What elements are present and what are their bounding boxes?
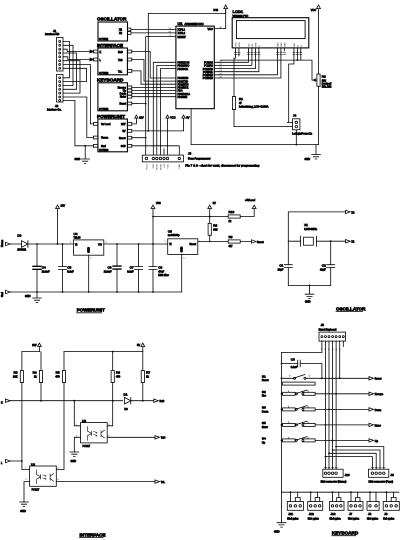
wire J1 pin2 ladder xyxy=(63,45,73,85)
ground symbol right of J3 xyxy=(305,145,321,161)
svg-text:TxL: TxL xyxy=(161,481,166,484)
wire LCD K pin to J4 pin1 xyxy=(288,51,294,122)
svg-text:12V: 12V xyxy=(121,123,126,126)
wire 12V pin to arrow xyxy=(132,122,137,124)
LCD1 pin stubs and rotated labels xyxy=(234,42,302,55)
switch S2 Esc xyxy=(262,390,369,398)
resistor R8 620 xyxy=(208,217,218,242)
svg-text:TxD: TxD xyxy=(161,437,166,440)
connector J2 Interface Gn xyxy=(47,75,63,112)
svg-text:Down: Down xyxy=(375,409,382,412)
svg-text:GND: GND xyxy=(20,510,26,513)
svg-text:Mini-connector (Papa): Mini-connector (Papa) xyxy=(369,481,394,484)
wire powerunit bottom gnd rail xyxy=(11,291,182,293)
U1 pin stubs left xyxy=(172,30,176,97)
title OSCILLATOR xyxy=(336,306,366,311)
svg-text:mc34164p: mc34164p xyxy=(168,234,180,237)
wire J5 pin1 to gnd bus xyxy=(282,341,322,352)
svg-text:Gnd: Gnd xyxy=(1,292,4,297)
svg-text:Reset: Reset xyxy=(119,137,126,140)
svg-text:C7: C7 xyxy=(130,266,134,270)
svg-text:KEYBOARD: KEYBOARD xyxy=(97,78,124,83)
wire LCD VSS down to R1 xyxy=(234,51,236,97)
node reset/powerunit junction xyxy=(145,137,147,139)
svg-text:470: 470 xyxy=(55,376,60,379)
LED inside U2 xyxy=(37,470,41,484)
svg-text:C2: C2 xyxy=(322,264,326,268)
wire U1 PC5 to LCD DB6/DB7 xyxy=(219,51,281,78)
svg-text:VCC: VCC xyxy=(170,117,175,120)
svg-text:C6: C6 xyxy=(108,266,112,270)
connector J11 Kbd pylon xyxy=(287,491,303,520)
svg-text:INTERFACE: INTERFACE xyxy=(80,532,106,537)
svg-text:VCC: VCC xyxy=(311,9,316,12)
LCD1 display module xyxy=(232,9,309,48)
svg-text:Usens: Usens xyxy=(1,239,4,247)
output arrow TxD xyxy=(155,436,165,440)
power arrow U40 (powerunit) xyxy=(151,202,161,244)
capacitor C7 0.1uF xyxy=(127,244,142,292)
svg-text:Kbd pylon: Kbd pylon xyxy=(287,517,299,520)
svg-text:22.0uF: 22.0uF xyxy=(42,270,50,273)
svg-text:VO: VO xyxy=(248,43,250,46)
wire J5 pin3 riser xyxy=(328,341,330,453)
wire J4 pin2 drop to gnd rail xyxy=(295,130,297,145)
svg-text:0.1uF: 0.1uF xyxy=(291,366,298,369)
svg-text:22pF: 22pF xyxy=(320,268,326,271)
svg-text:Reset: Reset xyxy=(257,241,264,244)
svg-text:Kbd pylon: Kbd pylon xyxy=(367,517,379,520)
wire K line to D1 xyxy=(11,400,123,402)
output arrow Reset (keyboard) xyxy=(369,377,382,381)
switch S1 Reset xyxy=(262,374,369,385)
input arrow Usens xyxy=(1,239,11,247)
svg-text:Enter: Enter xyxy=(120,96,126,99)
capacitor C3 0.1uF xyxy=(281,357,323,379)
svg-text:10K: 10K xyxy=(13,376,18,379)
wire Up: KEYBOARD to U1 PD4 xyxy=(132,90,172,92)
power arrow 12V (powerunit) xyxy=(56,205,66,245)
op-amp U1 AT90S8515 MCU xyxy=(176,21,214,109)
wire U3 anode from K line xyxy=(74,401,80,426)
wire J3 pin5 stub xyxy=(163,149,165,155)
output arrow X1 bottom xyxy=(346,240,355,244)
capacitor C6 22.0uF electrolytic xyxy=(104,244,121,292)
svg-text:GND: GND xyxy=(25,295,31,298)
wire 12V rail interface xyxy=(22,351,40,353)
wire J5 pin4 riser xyxy=(332,341,334,450)
power arrow 5V (top section) xyxy=(182,115,190,121)
svg-text:U40: U40 xyxy=(213,9,218,12)
svg-text:J2: J2 xyxy=(55,104,59,108)
svg-text:J3: J3 xyxy=(188,152,192,156)
ground symbol keyboard xyxy=(274,492,286,533)
optocoupler U3 PC817 xyxy=(76,419,110,448)
svg-text:S2: S2 xyxy=(262,390,266,394)
wire L to R3/U2 anode xyxy=(11,383,30,470)
svg-text:VSS: VSS xyxy=(236,42,238,47)
svg-text:CCT004: CCT004 xyxy=(99,149,109,152)
svg-text:Reset: Reset xyxy=(119,103,126,106)
svg-text:620: 620 xyxy=(213,228,218,231)
svg-text:10k..20k: 10k..20k xyxy=(322,86,332,89)
wire J10 risers into box xyxy=(326,447,337,470)
svg-text:TxL: TxL xyxy=(118,70,123,73)
svg-text:5V: 5V xyxy=(122,130,125,133)
svg-text:+5VLoad: +5VLoad xyxy=(245,199,256,202)
wire J5 pin2 riser xyxy=(325,341,327,457)
wire U5 GND down xyxy=(181,254,183,292)
resistor R10 xyxy=(228,210,240,223)
svg-text:VCC: VCC xyxy=(167,164,169,169)
wire J1 pin7 to OvLoad xyxy=(63,65,94,124)
connector J8 Kbd pylon xyxy=(367,491,379,520)
svg-text:Interface Krb: Interface Krb xyxy=(45,33,60,36)
power arrow 5V (mid) xyxy=(208,202,216,217)
svg-text:Kbd pylon: Kbd pylon xyxy=(330,517,342,520)
svg-text:GND: GND xyxy=(75,158,81,161)
input arrow L xyxy=(1,459,11,465)
svg-text:LcdLightPowerOn: LcdLightPowerOn xyxy=(292,133,312,136)
switch S5 Enter xyxy=(262,421,369,429)
svg-text:XTAL2: XTAL2 xyxy=(178,32,186,35)
phototransistor inside U2 xyxy=(50,474,54,482)
connector J13 Kbd pylon xyxy=(330,491,345,520)
switch S3 Down xyxy=(262,406,369,414)
wire VCC arrow to J3 pin6 xyxy=(167,122,169,156)
resistor R3 10K xyxy=(13,352,23,383)
wire U1 PC1 to LCD R/W xyxy=(219,51,252,65)
wire U1 PC2 to LCD E xyxy=(219,51,256,69)
SECTION-TOP xyxy=(45,5,332,170)
wire MOSI J3 pin2 to U1 PB5 xyxy=(153,62,171,155)
wire J1 pin1 ladder xyxy=(63,42,70,78)
title KEYBOARD xyxy=(332,531,359,536)
svg-text:Usens: Usens xyxy=(101,137,109,140)
wire Enter: KEYBOARD to U1 PD6 xyxy=(132,96,172,98)
svg-text:Down: Down xyxy=(262,410,269,413)
wire TxD: INTERFACE TxD to U1 PD1 xyxy=(132,60,172,82)
svg-text:+5V: +5V xyxy=(164,163,166,167)
wire J1 pin5 to INTERFACE L with arrowhead xyxy=(63,57,94,60)
resistor R6 470 xyxy=(111,352,121,383)
svg-text:12V: 12V xyxy=(139,117,144,120)
svg-text:U5: U5 xyxy=(168,229,172,233)
connector J6 Mini-connector Papa xyxy=(369,469,394,483)
wire U4 VO to U5 and 5V rail xyxy=(104,243,168,245)
svg-text:POWERUNIT: POWERUNIT xyxy=(77,308,105,313)
node R6 + U3 collector on K line xyxy=(112,383,114,401)
resistor R4 1k xyxy=(33,352,43,383)
connector J4 LcdLightPowerOn xyxy=(288,114,313,136)
output arrow X2 top xyxy=(346,210,355,214)
wire 5V top rail xyxy=(153,209,254,217)
output arrow Escape xyxy=(369,392,384,396)
wire J1 pin8 ladder xyxy=(63,68,87,81)
svg-text:Reset: Reset xyxy=(189,243,196,246)
svg-text:R3: R3 xyxy=(14,371,18,375)
wire Down: KEYBOARD to U1 PD5 xyxy=(132,93,172,95)
J10/J6 pin ticks xyxy=(324,466,385,468)
svg-text:S1: S1 xyxy=(262,374,266,378)
svg-text:J6: J6 xyxy=(390,473,394,477)
svg-text:From Programmator: From Programmator xyxy=(188,157,211,160)
svg-text:4k7: 4k7 xyxy=(229,245,234,248)
capacitor C5 0.1uF xyxy=(59,244,75,292)
svg-text:MOSI: MOSI xyxy=(157,164,159,170)
LED inside U3 xyxy=(88,427,92,441)
svg-text:beleuchtung_LCD=0.003A: beleuchtung_LCD=0.003A xyxy=(239,105,269,108)
power arrow 12V (top section) xyxy=(135,115,144,121)
resistor R9 xyxy=(228,235,240,248)
svg-text:GND: GND xyxy=(88,247,91,253)
svg-text:C3: C3 xyxy=(291,357,295,361)
wire keyboard bottom gnd rail xyxy=(282,491,400,493)
power arrow 12V (interface) xyxy=(32,343,41,352)
svg-text:Reset: Reset xyxy=(375,378,382,381)
wire J1 pin4 ladder xyxy=(63,53,77,89)
svg-text:PC817: PC817 xyxy=(83,445,91,448)
input arrow K xyxy=(1,399,11,405)
diode D2 1N4001 xyxy=(17,234,28,252)
svg-text:OSCILLATOR: OSCILLATOR xyxy=(336,306,366,311)
ground symbol oscillator xyxy=(305,285,314,303)
svg-text:ESR filter: ESR filter xyxy=(158,274,169,277)
svg-text:MISO: MISO xyxy=(160,164,162,170)
svg-text:C4: C4 xyxy=(42,266,46,270)
svg-text:5V: 5V xyxy=(186,117,189,120)
svg-text:U4: U4 xyxy=(74,232,78,236)
wire TxL: INTERFACE TxL to U1 PD2 xyxy=(132,71,172,84)
SECTION-INTERFACE xyxy=(1,343,165,537)
svg-text:J10: J10 xyxy=(345,473,350,477)
node jog junctions xyxy=(325,456,327,458)
input arrow Gnd xyxy=(1,290,11,297)
switch S4 Up xyxy=(262,437,369,445)
svg-text:12V: 12V xyxy=(61,205,66,208)
svg-text:D2: D2 xyxy=(17,234,21,238)
wire osc top output xyxy=(288,212,345,241)
svg-text:470: 470 xyxy=(116,376,121,379)
svg-text:Pin 7 & 8 - short for work, di: Pin 7 & 8 - short for work, disconnect f… xyxy=(185,163,259,167)
wire U2 collector up to R5 xyxy=(56,383,64,470)
svg-text:VI: VI xyxy=(169,243,172,246)
title POWERUNIT xyxy=(77,308,105,313)
svg-text:C1: C1 xyxy=(279,264,283,268)
connector J12 Kbd pylon xyxy=(308,491,323,520)
svg-text:Keb pylon: Keb pylon xyxy=(308,517,320,520)
svg-text:PB7/SCK: PB7/SCK xyxy=(178,68,189,71)
node junctions on gnd rail xyxy=(36,291,38,293)
wire VCC to R2 top xyxy=(318,13,320,74)
wire SCK J3 pin4 to U1 PB7 xyxy=(160,69,171,156)
svg-text:J8: J8 xyxy=(368,512,372,516)
svg-text:Ov Load: Ov Load xyxy=(101,123,111,126)
wire input to D2 to U4 VI xyxy=(11,243,74,245)
power arrow VCC above LCD xyxy=(311,5,321,13)
block KEYBOARD (CCT003) xyxy=(97,78,132,111)
node R7 pullup after D1 xyxy=(142,383,144,401)
svg-text:5V: 5V xyxy=(213,202,216,205)
svg-text:GND: GND xyxy=(274,531,280,534)
svg-text:CCT003: CCT003 xyxy=(99,108,109,111)
block INTERFACE (CCT002) xyxy=(94,43,132,75)
svg-text:D1: D1 xyxy=(124,392,128,396)
svg-text:VDD: VDD xyxy=(239,42,241,47)
svg-text:R10: R10 xyxy=(229,210,235,214)
wire keyboard gnd bus vertical xyxy=(281,353,283,493)
svg-text:J13: J13 xyxy=(331,512,336,516)
wire J5 pin6 riser xyxy=(339,341,341,378)
svg-text:AT90S8515-VVO: AT90S8515-VVO xyxy=(185,23,204,26)
wire U3 emitter to TxD arrow xyxy=(107,436,155,438)
svg-text:R6: R6 xyxy=(116,371,120,375)
svg-text:RxD: RxD xyxy=(118,51,123,54)
capacitor C2 22pF xyxy=(320,241,335,285)
svg-text:Kbd pylon: Kbd pylon xyxy=(348,517,360,520)
wire osc bottom rail xyxy=(288,284,330,286)
wire D1 to RxD arrow xyxy=(131,400,154,402)
wire RESET net: U1 RESET to J3 pin1 and POWERUNIT Reset pin xyxy=(132,37,172,156)
svg-text:22.0uF: 22.0uF xyxy=(104,270,112,273)
U1 pin stubs right xyxy=(214,29,218,78)
node junctions on 5V rail xyxy=(116,243,118,245)
svg-text:Enter: Enter xyxy=(262,426,268,429)
connector J5 Exted Keyboard xyxy=(319,323,346,350)
wire J2 pin6 to Usens xyxy=(63,97,94,138)
svg-text:GND: GND xyxy=(181,246,184,252)
svg-text:Interface Gn.: Interface Gn. xyxy=(47,109,62,112)
svg-text:Mini-connector (Mama): Mini-connector (Mama) xyxy=(321,481,347,484)
svg-text:Exted Keyboard: Exted Keyboard xyxy=(319,328,337,331)
svg-text:S3: S3 xyxy=(262,406,266,410)
svg-text:J7: J7 xyxy=(349,512,353,516)
wire U3 collector up to K line xyxy=(107,401,113,426)
svg-text:5V: 5V xyxy=(137,344,140,347)
svg-text:LCD1: LCD1 xyxy=(233,9,244,14)
wire J2 pin6a to Gnd pin xyxy=(63,100,94,145)
ground symbol below J2 ladder xyxy=(75,146,90,164)
svg-text:Keb pylon: Keb pylon xyxy=(383,517,395,520)
svg-text:R2: R2 xyxy=(322,75,326,79)
wire 5V rail interface xyxy=(64,351,143,353)
node R4 pullup on K line xyxy=(40,383,42,401)
svg-text:0.1uF: 0.1uF xyxy=(67,270,74,273)
svg-text:CCT001: CCT001 xyxy=(99,38,109,41)
wire R2 bottom to gnd line xyxy=(318,86,320,144)
phototransistor inside U3 xyxy=(101,430,105,438)
svg-text:Escape: Escape xyxy=(375,393,384,396)
capacitor C1 22pF xyxy=(278,241,293,285)
svg-text:VCC: VCC xyxy=(208,28,213,31)
node junctions on 12V rail xyxy=(36,243,38,245)
svg-text:R9: R9 xyxy=(229,235,233,239)
svg-text:GND: GND xyxy=(305,301,311,304)
svg-text:GND: GND xyxy=(179,164,181,169)
svg-text:22pF: 22pF xyxy=(278,268,284,271)
svg-text:GND: GND xyxy=(305,158,311,161)
wire J1 pin6 ladder xyxy=(63,61,80,93)
node contrast junction xyxy=(297,59,299,61)
connector J1 Interface Krb xyxy=(45,29,63,71)
ground symbol powerunit xyxy=(25,292,41,302)
output arrow Reset xyxy=(252,240,264,244)
SECTION-OSCILLATOR xyxy=(278,210,367,311)
output arrow TxL xyxy=(155,480,165,484)
svg-text:Reset: Reset xyxy=(145,164,148,170)
svg-text:R4: R4 xyxy=(33,371,37,375)
svg-text:J11: J11 xyxy=(288,512,293,516)
power arrow 5V (interface) xyxy=(137,343,145,352)
svg-text:12V: 12V xyxy=(32,344,37,347)
svg-text:0.1uF: 0.1uF xyxy=(127,270,134,273)
capacitor C8 47uF ESR filter xyxy=(149,244,169,292)
output arrow Up xyxy=(369,439,379,443)
svg-text:R8: R8 xyxy=(213,224,217,228)
svg-text:PC817: PC817 xyxy=(32,489,40,492)
svg-text:INTERFACE: INTERFACE xyxy=(97,43,123,48)
svg-text:1N4001: 1N4001 xyxy=(17,249,26,252)
output arrow RxD xyxy=(154,399,165,403)
svg-text:J12: J12 xyxy=(309,512,314,516)
svg-text:78L05: 78L05 xyxy=(74,237,82,240)
svg-text:C8: C8 xyxy=(158,266,162,270)
svg-text:KEYBOARD: KEYBOARD xyxy=(332,531,359,536)
LCD pin number ticks xyxy=(234,53,302,55)
power arrow U40 above U1 xyxy=(213,5,227,13)
wire crossover jogs to J6 xyxy=(336,447,384,470)
svg-text:VI: VI xyxy=(75,244,78,247)
ground symbol U2 xyxy=(20,502,29,513)
svg-text:U1: U1 xyxy=(178,21,184,26)
wire U1 PC0 to LCD RS xyxy=(219,51,249,62)
wire J1 pin3 to INTERFACE K with arrowheads xyxy=(63,49,94,51)
resistor R7 1k xyxy=(141,352,150,383)
wire U5 reset output line xyxy=(198,241,252,243)
wire U4 GND pin down xyxy=(88,255,90,292)
connector J9 Kbd pylon xyxy=(383,491,399,520)
svg-text:Reset: Reset xyxy=(262,379,269,382)
svg-text:TxD: TxD xyxy=(118,59,123,62)
svg-text:RxD: RxD xyxy=(160,400,165,403)
wire KEYBOARD Reset to reset net xyxy=(132,103,137,105)
ground symbol U3 xyxy=(70,452,79,463)
SECTION-KEYBOARD xyxy=(262,323,399,536)
wire RxD: INTERFACE RxD to U1 PD0 xyxy=(132,52,172,79)
svg-text:Gnd: Gnd xyxy=(101,145,106,148)
wire LCD VDD stub xyxy=(238,51,240,56)
block POWERUNIT (CCT004) xyxy=(94,114,132,152)
wire LCD contrast line to R2 wiper xyxy=(221,51,314,80)
svg-text:C5: C5 xyxy=(67,266,71,270)
svg-text:VO: VO xyxy=(98,244,102,247)
resistor R1 backlight xyxy=(232,97,268,110)
diode D1 xyxy=(124,392,131,411)
svg-text:CCT002: CCT002 xyxy=(99,72,109,75)
wire MISO J3 pin3 to U1 PB6 xyxy=(157,65,172,155)
reset supervisor U5 MC34164 xyxy=(165,229,202,259)
wire Escape: KEYBOARD to U1 PD3 xyxy=(132,86,172,88)
connector J7 Kbd pylon xyxy=(348,491,363,520)
svg-text:U40: U40 xyxy=(156,202,161,205)
svg-text:R7: R7 xyxy=(146,371,150,375)
connector J3 From Programmator xyxy=(142,152,259,170)
svg-text:J9: J9 xyxy=(384,512,388,516)
optocoupler U2 PC817 xyxy=(25,462,59,491)
svg-text:RESET: RESET xyxy=(178,36,187,39)
svg-text:J1: J1 xyxy=(53,29,57,33)
wire U3 cathode to ground xyxy=(74,437,80,452)
